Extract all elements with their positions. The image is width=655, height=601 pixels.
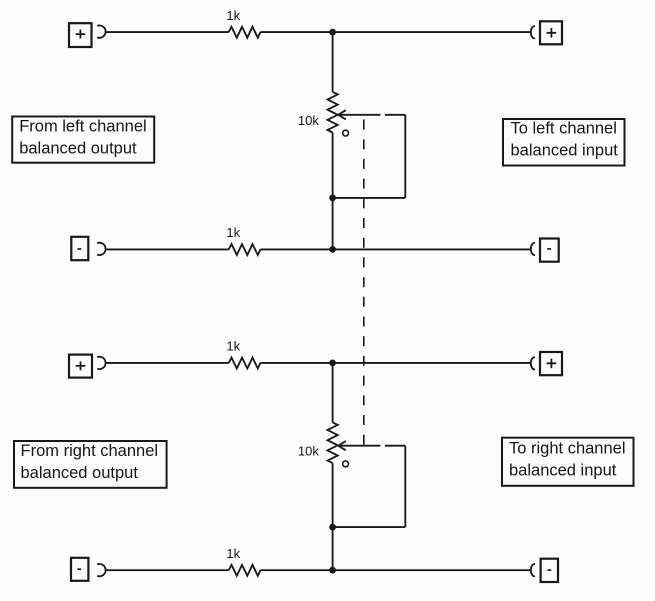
connector arc J2 (531, 26, 535, 38)
wire row4 left (106, 569, 229, 571)
resistor R3 1k (229, 358, 261, 369)
wiper return right side VR2 (404, 446, 406, 527)
connector J2 (+) to left channel (540, 21, 562, 44)
wiper return bottom VR1 (333, 197, 406, 199)
plus sign J5 (76, 361, 86, 370)
junction node row1 / pot top (329, 29, 336, 36)
potentiometer VR2 10k top lead (332, 363, 334, 423)
svg-text:10k: 10k (298, 113, 319, 128)
note box to right channel (502, 438, 634, 486)
svg-text:balanced output: balanced output (19, 140, 137, 158)
resistor R2 1k (229, 244, 261, 255)
resistor R1 1k (229, 27, 261, 38)
svg-text:1k: 1k (226, 546, 240, 561)
minus sign J7 (77, 568, 81, 570)
connector arc J1 (97, 25, 105, 37)
wiper arrow VR2 (338, 441, 346, 450)
svg-text:1k: 1k (226, 8, 240, 23)
svg-text:1k: 1k (226, 225, 240, 240)
svg-text:balanced input: balanced input (509, 462, 617, 480)
junction node row2 (329, 246, 336, 253)
connector J8 (-) to right channel (541, 559, 558, 582)
note box from right channel (14, 441, 167, 488)
wire row2 left (106, 248, 229, 250)
plus sign J2 (547, 28, 557, 38)
connector arc J8 (531, 564, 535, 576)
connector arc J5 (97, 357, 105, 369)
svg-text:balanced input: balanced input (511, 142, 619, 160)
connector arc J7 (97, 564, 105, 576)
wire row1 left (106, 31, 229, 33)
wire row4 right (260, 569, 530, 571)
wire row2 right (260, 248, 530, 250)
wiper return bottom VR2 (333, 526, 406, 528)
note box from left channel (12, 117, 154, 163)
note box to left channel (503, 119, 625, 166)
plus sign J6 (547, 359, 557, 369)
svg-text:balanced output: balanced output (21, 464, 139, 482)
connector J1 (+) from left channel (69, 23, 92, 47)
connector J3 (-) from left channel (71, 237, 88, 260)
potentiometer VR1 10k body (328, 92, 338, 133)
connector J6 (+) to right channel (540, 352, 562, 375)
wire row1 right (260, 31, 530, 33)
svg-text:To right channel: To right channel (509, 440, 626, 458)
cw terminal mark VR2 (343, 461, 349, 467)
junction node pot2 bottom terminal (329, 524, 336, 531)
minus sign J3 (78, 248, 82, 250)
connector J5 (+) from right channel (69, 355, 92, 378)
svg-text:To left channel: To left channel (511, 120, 617, 138)
potentiometer VR1 bottom lead (332, 133, 334, 250)
ganged link dashed wire (363, 120, 365, 446)
wiper arrow VR1 (338, 110, 346, 119)
potentiometer VR1 10k top lead (332, 32, 334, 92)
wiper wire VR2 (339, 445, 405, 447)
junction node row3 / pot2 top (329, 360, 336, 367)
wiper wire VR1 (339, 114, 405, 116)
svg-text:From right channel: From right channel (21, 442, 159, 460)
svg-text:From left channel: From left channel (19, 118, 146, 136)
wiper return right side VR1 (404, 115, 406, 198)
minus sign J8 (548, 569, 552, 571)
connector arc J6 (531, 357, 535, 369)
connector J4 (-) to left channel (540, 239, 559, 262)
wire row3 right (260, 362, 530, 364)
cw terminal mark VR1 (343, 130, 349, 136)
wire row3 left (106, 362, 229, 364)
potentiometer VR2 10k body (328, 422, 338, 463)
plus sign J1 (76, 30, 86, 39)
junction node row4 (329, 567, 336, 574)
junction node pot1 bottom terminal (329, 195, 336, 202)
connector J7 (-) from right channel (71, 558, 88, 581)
connector arc J4 (531, 243, 535, 255)
connector arc J3 (97, 243, 105, 255)
svg-text:10k: 10k (298, 443, 319, 458)
resistor R4 1k (229, 565, 261, 576)
svg-text:1k: 1k (226, 339, 240, 354)
minus sign J4 (547, 248, 551, 250)
potentiometer VR2 bottom lead (332, 463, 334, 570)
